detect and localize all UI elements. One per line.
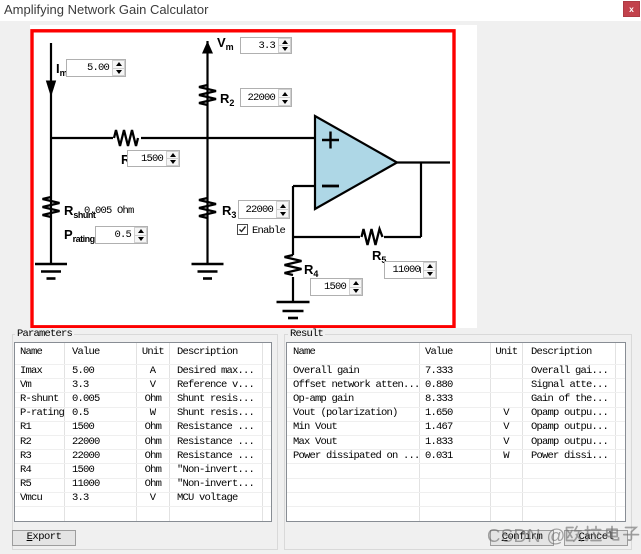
value spinbox R3 = 22000 [238,200,290,219]
glyph: LA [585,527,601,541]
schematic picture area [30,25,477,28]
wire: output vertical branch of feedback [420,163,422,238]
wire: feedback horizontal through R5 [293,236,421,238]
label P-rating [64,228,95,244]
watermark CSDN @ OuLa DianZi [487,523,641,554]
resistor R3 (vertical) [199,198,216,218]
close button [623,1,640,17]
label R4 [304,263,318,279]
ground (left branch) [35,264,67,279]
ground (middle branch) [192,264,224,279]
Parameters table [14,342,272,522]
value label R-shunt = 0.005 Ohm [84,205,134,217]
label R2 [220,92,234,108]
glyph: DIAN [607,527,619,540]
wire: left branch vertical (Im source) [50,43,52,264]
op-amp + input marking [322,132,339,149]
label R5 [372,249,386,265]
label R1 [121,153,130,166]
checkbox label Enable [252,225,285,237]
value spinbox R4 = 1500 [310,278,363,296]
wire: inverting input horizontal [293,185,315,187]
label Vm [217,36,233,52]
label R-shunt [64,204,95,220]
glyph: OU [567,527,582,542]
value spinbox P-rating = 0.5 [95,226,148,244]
checkbox Enable (R3) [237,224,248,235]
resistor R5 (horizontal, feedback) [360,228,384,246]
value spinbox Im = 5.00 [66,59,126,77]
op-amp - input marking [322,185,339,188]
svg-text:CSDN @: CSDN @ [487,525,566,546]
op-amp U1 [315,116,397,209]
value spinbox Vm = 3.3 [240,37,292,54]
wire: inverting branch vertical down to feedback node [292,186,294,237]
Result table [286,342,626,522]
value spinbox R2 = 22000 [240,88,292,107]
ground (below R4) [277,302,310,318]
glyph: ZI [624,528,639,541]
Result group box [284,334,632,550]
Parameters group box [12,334,278,550]
wire: main horizontal net to op-amp + input [51,137,315,139]
current arrow Im (pointing down) [46,81,56,98]
red annotation border [32,31,454,327]
value spinbox R1 = 1500 [127,150,180,167]
wire: op-amp output horizontal [397,161,450,163]
wire: R4 branch vertical down to ground [292,237,294,301]
resistor R1 (horizontal, in main wire) [113,128,141,148]
title bar [0,0,641,21]
label Im [56,62,67,78]
resistor R2 (vertical) [199,85,216,105]
Export button [12,530,76,546]
voltage arrow Vm (pointing up) [202,41,213,54]
resistor R-shunt (vertical, left branch) [43,197,60,217]
Cancel button [564,530,628,546]
resistor R4 (vertical) [283,255,304,277]
label R3 [222,204,236,220]
value spinbox R5 = 11000 [384,261,437,279]
wire: middle branch vertical (Vm / R2 / R3) [206,41,208,264]
Confirm button [490,530,554,546]
